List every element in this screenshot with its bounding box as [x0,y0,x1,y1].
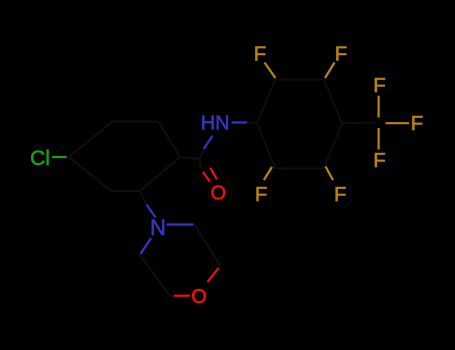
wire ring edge BL-L [257,123,275,169]
svg-text:O: O [211,183,227,205]
bond C2-F top-left (olive) [265,63,276,79]
wire carbonyl-to-NH dark part [200,149,204,159]
bond C5-F bottom-right (olive) [326,167,334,181]
wire ring-to-carbonyl bond [180,157,200,159]
C=O double bond (red) [203,168,217,182]
wire ring edge TL-TR [113,121,159,123]
wire HN-aryl dark half [247,122,257,125]
wire CH2d-CH2c [140,255,170,296]
bond aryl-N morpholine: dark half [140,191,147,205]
svg-text:F: F [373,74,386,97]
wire ring-CF3 bond [342,122,376,124]
wire ring edge TR-R [159,122,181,158]
bond CH2b-O (red) [208,268,219,282]
wire ring edge L-TL [69,122,113,158]
wire ring edge R-BR [140,157,180,191]
bond Cl-ring (green half) [52,156,67,158]
bond HN-aryl (blue) [232,121,248,123]
svg-text:F: F [255,183,268,206]
svg-text:F: F [334,183,347,206]
svg-text:O: O [191,286,207,308]
bond C3-F top-right (olive) [325,63,335,79]
wire ring edge R-BR [324,123,342,169]
chlorophenyl ring (left benzene) [69,122,180,192]
wire CH2c-O dark tip [170,295,174,297]
svg-text:Cl: Cl [30,147,50,170]
bond N-CH2 left arm (blue) [141,238,152,254]
bond O-CH2c (red) [174,295,190,297]
svg-text:N: N [150,215,166,240]
bond C6-F bottom-left (olive) [264,167,272,180]
wire carbonyl-to-O dark part [200,159,201,169]
wire ring edge BR-BL [275,168,324,170]
wire ring edge BR-BL [111,190,140,192]
wire ring edge TR-R [324,80,342,123]
svg-text:F: F [411,112,424,135]
svg-text:F: F [373,149,386,172]
bond C-N(H) blue half [204,136,213,149]
wire ring edge BL-L [69,157,111,191]
amide carbonyl carbon junction [180,149,204,169]
wire CH2b-O dark tip [219,267,221,269]
morpholine ring dark bonds [140,225,221,297]
svg-text:H: H [201,113,215,135]
bond aryl-N morpholine: blue half [147,205,156,218]
bond N-CH2 right arm (blue) [167,223,194,225]
wire CH2a-CH2b [195,225,221,267]
wire ring edge TL-TR [275,79,324,81]
svg-text:F: F [254,42,267,65]
wire ring edge L-TL [257,80,275,123]
bond CF3-F right (olive) [386,122,410,124]
svg-text:N: N [215,113,229,135]
bond CF3-F top (olive) [378,96,380,118]
svg-text:F: F [335,42,348,65]
bond CF3-F bottom (olive) [378,128,380,150]
tetrafluorophenyl ring (right benzene) [257,80,376,169]
